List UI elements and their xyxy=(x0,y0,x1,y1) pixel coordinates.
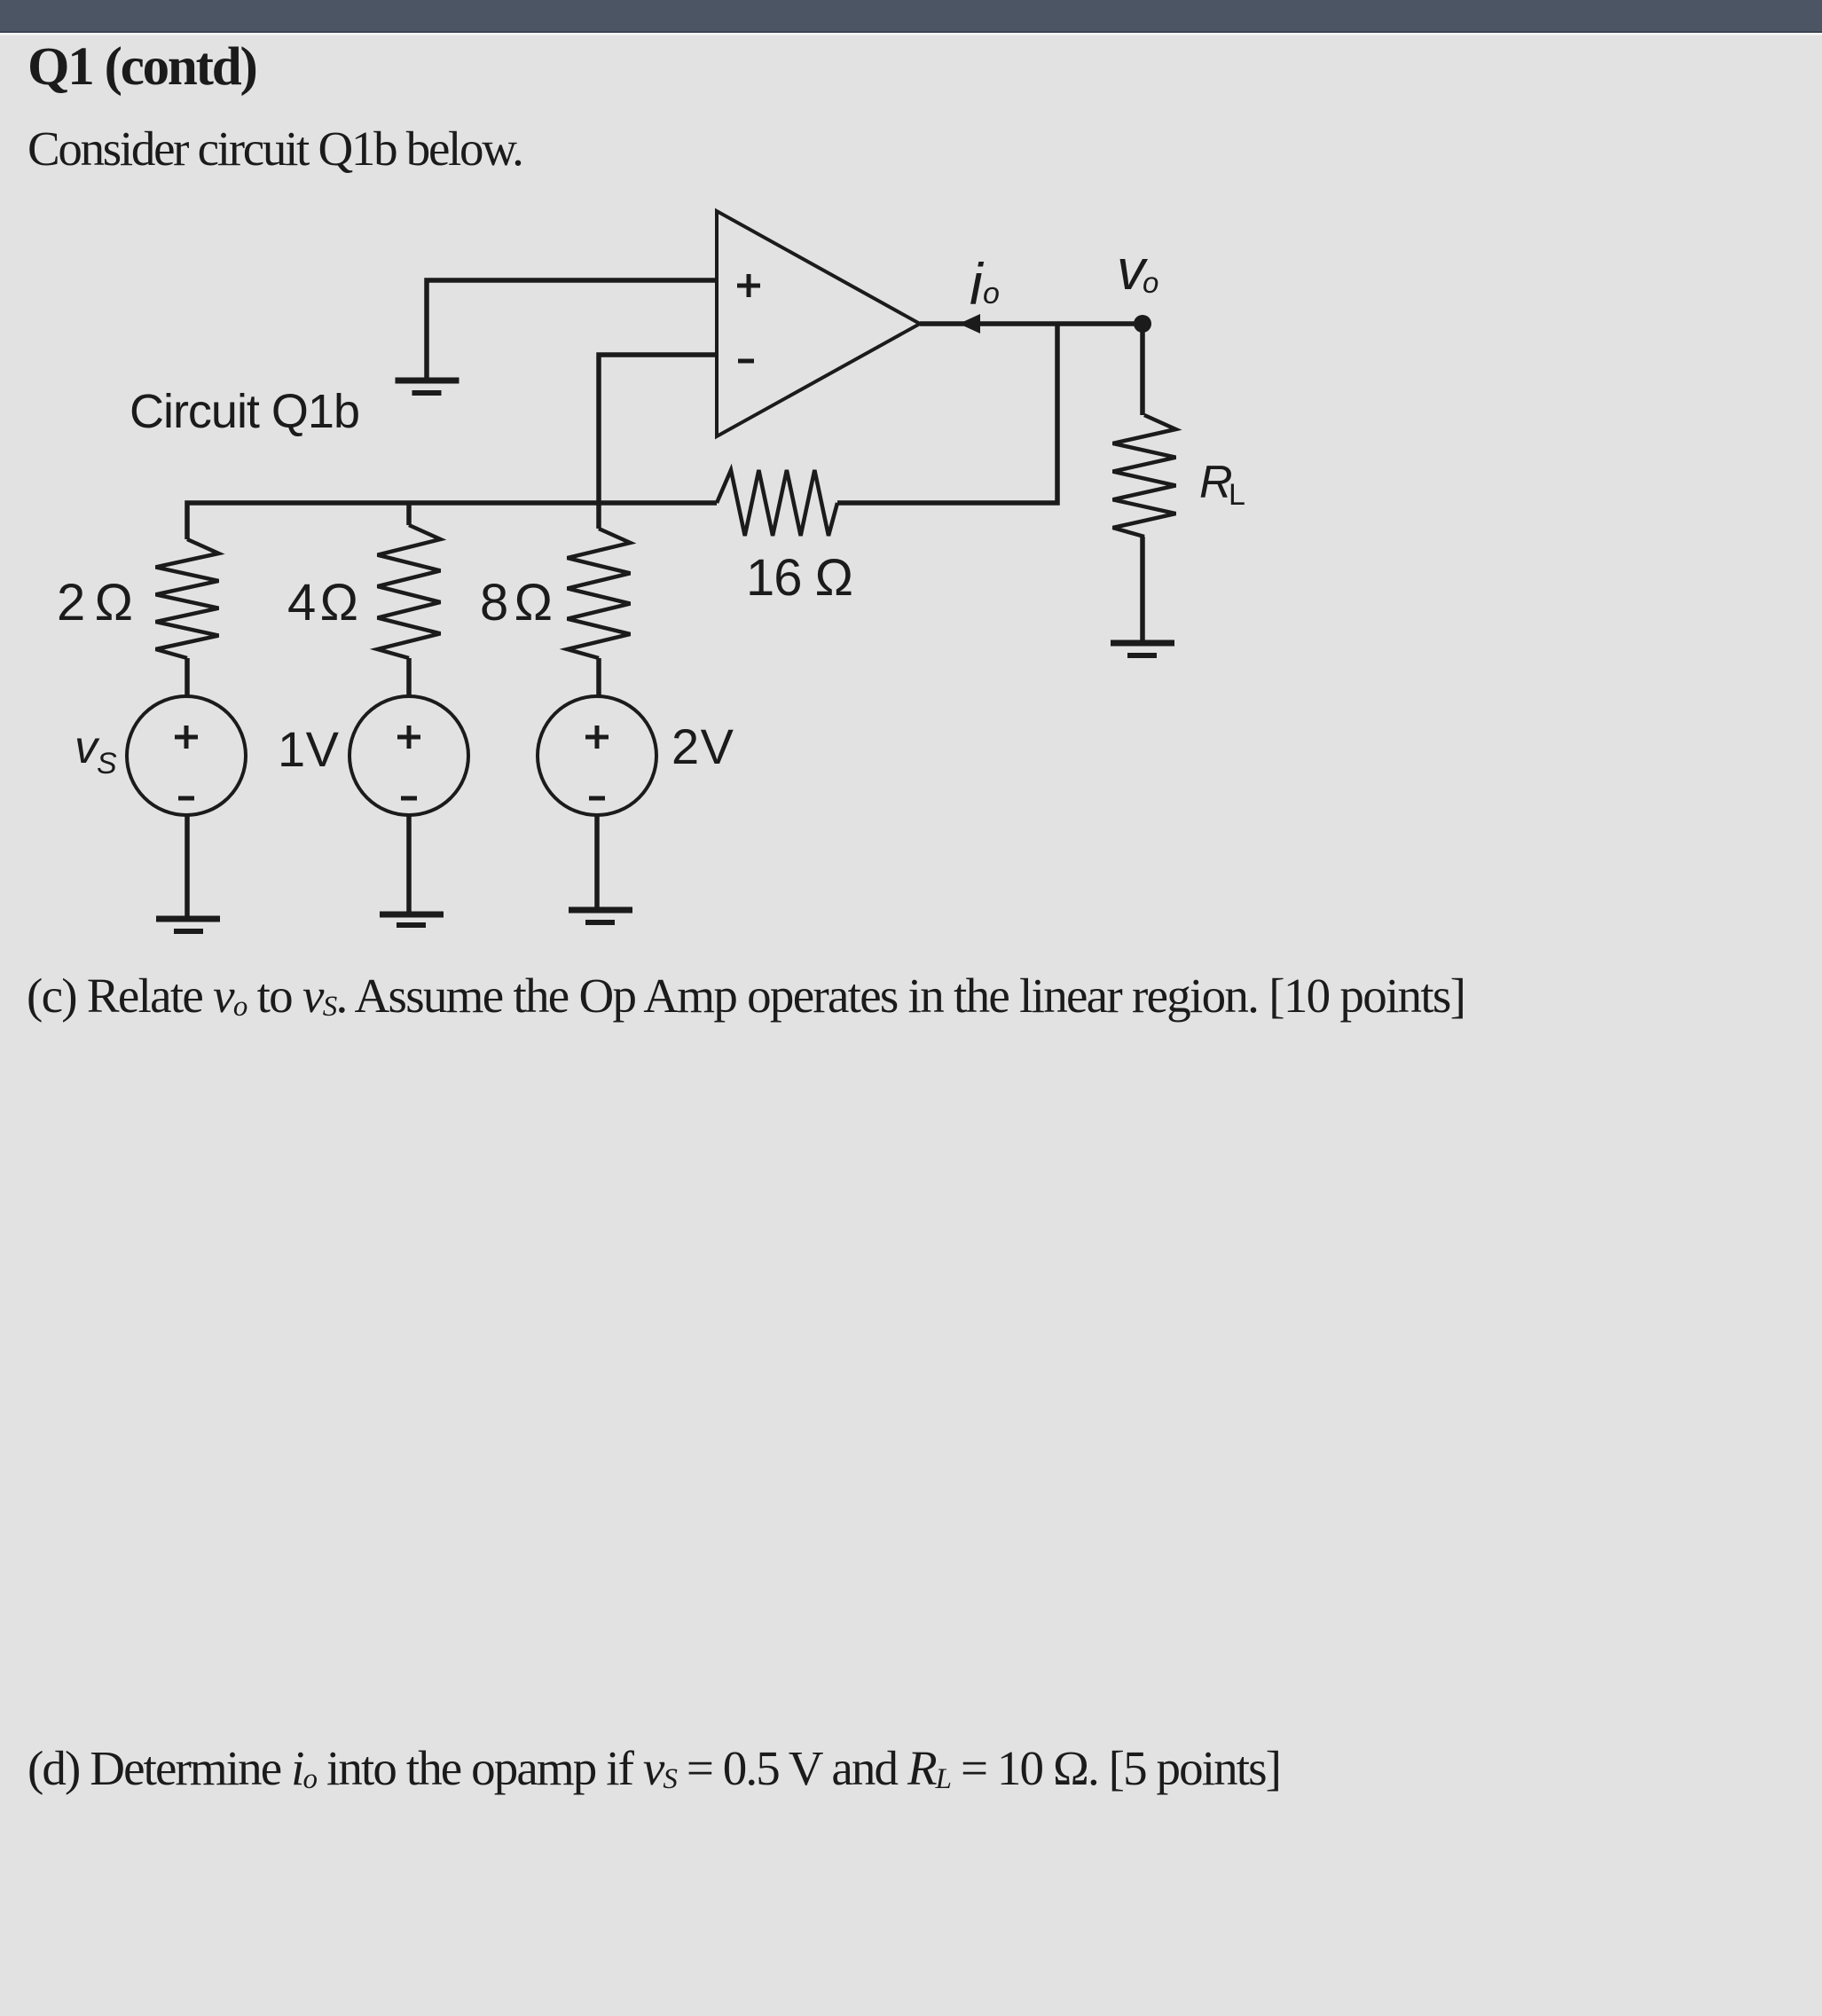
svg-text:L: L xyxy=(1229,478,1245,512)
circuit diagram xyxy=(0,0,1822,958)
intro text xyxy=(27,124,522,173)
arrow io into op-amp xyxy=(959,314,980,333)
wire 2ohm to source vs xyxy=(185,658,190,697)
label 2 ohm xyxy=(57,574,133,631)
wire RL to ground xyxy=(1140,537,1145,640)
resistor 2ohm xyxy=(156,539,219,658)
wire stub to resistor 4ohm xyxy=(406,503,412,525)
svg-text:16 Ω: 16 Ω xyxy=(746,549,853,607)
svg-text:4 Ω: 4 Ω xyxy=(287,574,358,631)
op-amp + input marker xyxy=(737,274,760,297)
resistor 4ohm xyxy=(378,525,441,658)
wire node to RL xyxy=(1140,324,1145,415)
label RL xyxy=(1199,457,1245,512)
wire 8ohm to source 2V xyxy=(596,658,601,697)
vs - marker xyxy=(178,796,194,801)
ground (non-inverting input) xyxy=(396,380,459,393)
svg-text:1 V: 1 V xyxy=(278,721,340,777)
svg-text:2 V: 2 V xyxy=(671,718,734,774)
wire from op-amp - input down to node A xyxy=(599,355,717,529)
wire from op-amp + input to ground xyxy=(427,280,717,379)
2V - marker xyxy=(589,796,605,801)
label vo xyxy=(1117,238,1158,302)
op-amp - input marker xyxy=(738,359,754,364)
label Circuit Q1b xyxy=(130,385,360,438)
label vs xyxy=(75,722,117,781)
voltage source vs xyxy=(127,696,246,815)
resistor 8ohm xyxy=(568,529,631,658)
title Q1 (contd) xyxy=(27,40,256,94)
svg-text:Circuit Q1b: Circuit Q1b xyxy=(130,385,360,438)
resistor RL xyxy=(1113,415,1176,537)
label 4 ohm xyxy=(287,574,358,631)
ground (below vs) xyxy=(156,919,220,931)
label io xyxy=(970,251,1000,317)
svg-text:o: o xyxy=(983,277,1000,310)
ground (below 2V) xyxy=(569,910,632,922)
wire vs to ground xyxy=(185,815,190,916)
output wire xyxy=(920,321,1143,326)
node vo junction dot xyxy=(1134,315,1151,333)
wire 2V to ground xyxy=(594,815,600,907)
label 8 ohm xyxy=(480,574,553,631)
svg-text:R: R xyxy=(1199,457,1233,508)
ground (below RL) xyxy=(1111,643,1174,655)
wire 1V to ground xyxy=(406,815,412,912)
1V + marker xyxy=(397,726,420,749)
question (c) xyxy=(27,971,1465,1020)
header bar xyxy=(0,0,1822,33)
2V + marker xyxy=(585,726,609,749)
voltage source 1V xyxy=(349,696,468,815)
wire 4ohm to source 1V xyxy=(406,658,412,697)
1V - marker xyxy=(401,796,417,801)
question (d) xyxy=(27,1744,1280,1792)
svg-text:S: S xyxy=(97,747,117,781)
ground (below 1V) xyxy=(380,914,444,925)
svg-text:8 Ω: 8 Ω xyxy=(480,574,553,631)
feedback wire from 16ohm to output node xyxy=(837,324,1057,503)
wire bus node A horizontal xyxy=(187,503,717,539)
svg-text:2 Ω: 2 Ω xyxy=(57,574,133,631)
voltage source 2V xyxy=(538,696,656,815)
label 1 V xyxy=(278,721,340,777)
vs + marker xyxy=(175,726,198,749)
svg-text:o: o xyxy=(1143,266,1158,299)
resistor 16ohm feedback xyxy=(717,470,837,536)
label 2 V xyxy=(671,718,734,774)
label 16 ohm xyxy=(746,549,853,607)
op-amp U1 xyxy=(717,211,920,436)
